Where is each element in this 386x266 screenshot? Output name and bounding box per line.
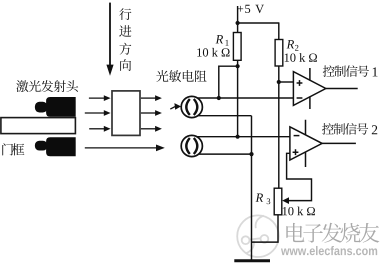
label R1 — [216, 35, 224, 43]
resistor R2 — [275, 40, 283, 67]
label R3 value 10 k Ω — [283, 207, 315, 216]
label 门框 (door frame) — [2, 143, 24, 155]
resistor R1 — [233, 33, 241, 61]
junction +5V/R1 — [236, 21, 240, 25]
ground symbol — [234, 259, 270, 262]
beam arrow long (through gap) — [85, 147, 157, 149]
label digit 1 — [373, 67, 378, 76]
wire R1 jog to RG1 node — [219, 66, 238, 98]
watermark url highlight — [282, 247, 378, 256]
laser emitter lower — [35, 137, 76, 156]
wire RG1 bottom to ground column — [198, 115, 251, 117]
wire R2 bottom column to R3 — [278, 66, 280, 189]
wire U1 output — [326, 88, 358, 90]
watermark 电子发烧友 — [286, 223, 379, 243]
label R2 subscript — [295, 45, 298, 51]
label R1 subscript — [226, 40, 229, 46]
beam arrow right 2 — [141, 112, 156, 114]
wire RG1 top to op-amp U1 inverting — [198, 97, 294, 99]
label R2 — [287, 40, 295, 48]
label R3 — [256, 194, 264, 202]
label digit 2 — [372, 125, 377, 134]
wire +5V rail — [238, 22, 279, 24]
watermark 电子发烧友 highlight — [288, 224, 381, 244]
beam arrow right 3 — [141, 128, 156, 130]
resistor R3 (potentiometer) — [274, 188, 282, 215]
label 向 (char 4) — [120, 59, 131, 71]
travel direction arrow — [106, 3, 113, 76]
wire RG2 bottom to ground column — [199, 153, 252, 155]
op-amp U2 — [290, 120, 322, 167]
junction ground column / RG2 bottom — [249, 152, 253, 156]
wire R3 bottom to ground — [252, 215, 278, 242]
label 光敏电阻 (photoresistor) — [156, 70, 206, 82]
watermark logo circle — [237, 215, 279, 257]
wiper arrow into R3 — [282, 197, 289, 204]
photoresistor RG1 — [181, 96, 202, 117]
photoresistor RG2 — [181, 135, 202, 156]
label R2 value 10 k Ω — [285, 53, 317, 62]
door gap box — [112, 91, 140, 135]
wire R3 wiper feedback to U2 non-inverting — [285, 153, 311, 200]
junction R1-RG2 node — [236, 135, 240, 139]
label R3 subscript — [267, 198, 271, 204]
junction node B / U1+ — [277, 80, 281, 84]
beam arrow right 1 — [141, 97, 156, 99]
label 行 (travel dir char 1) — [119, 8, 131, 20]
light arrow at RG1 — [174, 103, 181, 110]
beam arrow left 1 — [89, 97, 105, 99]
junction R1 bottom — [236, 64, 240, 68]
label 控制信号1 (control signal 1) — [323, 65, 369, 77]
beam arrow left 3 — [89, 128, 105, 130]
laser emitter upper — [35, 97, 76, 117]
wire rail to R2 — [278, 22, 280, 39]
label 方 (char 3) — [119, 43, 131, 55]
label 控制信号2 (control signal 2) — [322, 123, 368, 135]
beam arrow left 2 — [85, 112, 105, 114]
op-amp U1 — [293, 68, 325, 109]
door frame beam — [1, 118, 76, 134]
label +5 V — [237, 5, 264, 13]
wire U2 output — [322, 142, 356, 144]
label R1 value 10 k Ω — [197, 48, 229, 57]
junction RG1 node — [217, 96, 221, 100]
wire node B to op-amp U1 non-inverting — [279, 81, 294, 83]
wire R1 bottom column to node RG2-top — [237, 60, 239, 137]
wire ground column — [251, 116, 253, 260]
label 进 (char 2) — [119, 25, 131, 37]
watermark url www.elecfans.com — [281, 246, 377, 255]
wire +5V drop to R1 — [237, 6, 239, 33]
label 激光发射头 (laser transmitter) — [16, 80, 78, 92]
wire RG2 top to op-amp U2 inverting — [197, 136, 290, 138]
